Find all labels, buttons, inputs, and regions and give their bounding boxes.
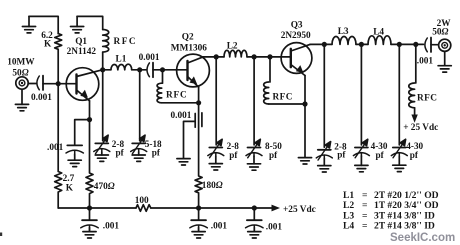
- svg-text:pf: pf: [229, 150, 238, 160]
- capacitor C2 0.001: [147, 63, 153, 77]
- ground output connector: [438, 51, 451, 72]
- wire ground G1 to 6.2K top: [29, 16, 58, 33]
- label 2W 50ohm: [432, 19, 451, 37]
- label 100: [135, 196, 149, 206]
- wire Q1 emitter down: [89, 101, 91, 120]
- svg-text:RFC: RFC: [114, 37, 138, 47]
- svg-text:100: 100: [135, 196, 149, 206]
- trimmer 4-30pf T7: [391, 44, 407, 171]
- svg-text:MM1306: MM1306: [171, 43, 207, 53]
- svg-text:.001: .001: [417, 57, 434, 67]
- svg-text:pf: pf: [269, 150, 278, 160]
- svg-text:0.001: 0.001: [139, 53, 160, 63]
- node rail T5: [322, 42, 327, 47]
- trimmer 2-8pf T1: [94, 70, 110, 162]
- wire C-in to base node: [43, 83, 76, 85]
- svg-text:.001: .001: [211, 221, 228, 231]
- wire RFC1 to collector node: [102, 52, 104, 70]
- inductor RFC1: [103, 30, 109, 53]
- transistor Q2: [177, 54, 210, 87]
- trimmer 5-18pf T2: [131, 70, 147, 162]
- inductor L2: [224, 50, 247, 57]
- label 0.001 C2: [139, 53, 160, 63]
- ground C-e1: [68, 160, 81, 166]
- wire C-out to connector: [431, 44, 439, 46]
- resistor 180: [195, 103, 202, 208]
- node rail T3: [214, 54, 219, 59]
- svg-text:pf: pf: [376, 150, 385, 160]
- node base Q1: [56, 81, 61, 86]
- node bus 470: [87, 205, 92, 210]
- label 8-50 pf T4: [265, 141, 282, 160]
- label RFC1: [114, 37, 138, 47]
- inductor RFC4: [409, 44, 416, 107]
- label 10MW 50ohm: [7, 58, 35, 79]
- svg-text:.001: .001: [47, 143, 64, 153]
- watermark SeekIC.com: [390, 232, 455, 244]
- node bus c: [252, 205, 257, 210]
- legend coil table: [343, 190, 439, 232]
- label Q3 2N2950: [281, 20, 311, 41]
- label Q1 2N1142: [67, 37, 97, 57]
- trimmer 2-8pf T3: [208, 57, 224, 170]
- ground input connector: [15, 89, 28, 111]
- svg-text:+25 Vdc: +25 Vdc: [283, 205, 316, 215]
- node Q1 emitter: [87, 117, 92, 122]
- wire Q3 emitter down: [304, 76, 306, 105]
- capacitor C-out .001: [425, 38, 431, 53]
- inductor L3: [332, 37, 356, 45]
- wire L2 to Q3 base: [247, 56, 291, 58]
- label L3: [338, 27, 349, 37]
- inductor L4: [368, 36, 391, 45]
- label 4-30 pf T7: [406, 141, 423, 160]
- wire Q2 emitter down: [198, 87, 200, 103]
- label .001 output: [417, 57, 434, 67]
- ground C-e2: [177, 159, 190, 165]
- connector J2 output: [439, 39, 451, 51]
- label 470: [94, 182, 115, 192]
- label +25 Vdc right: [403, 123, 438, 133]
- node L1 right: [137, 67, 142, 72]
- label 4-30 pf T6: [371, 141, 388, 160]
- node rail RFC3: [267, 54, 272, 59]
- capacitor bus .001 c: [246, 208, 263, 238]
- node rail T7: [397, 42, 402, 47]
- svg-text:Q2: Q2: [182, 32, 194, 42]
- label L4: [373, 27, 384, 37]
- node Q1 collector: [100, 67, 105, 72]
- svg-text:50Ω: 50Ω: [432, 27, 448, 37]
- wire L1 to node: [132, 69, 140, 71]
- label .001 a: [103, 221, 120, 231]
- wire Q2 collector rail: [203, 56, 224, 58]
- trimmer 4-30pf T6: [353, 44, 369, 171]
- label L2: [227, 41, 238, 51]
- svg-text:RFC: RFC: [166, 90, 188, 100]
- trimmer 2-8pf T5: [316, 44, 332, 172]
- svg-text:L1: L1: [116, 55, 127, 65]
- trimmer 8-50pf T4: [246, 57, 262, 170]
- label 2.7 K: [63, 174, 75, 193]
- label 2-8 pf T1: [112, 139, 125, 157]
- svg-text:470Ω: 470Ω: [94, 182, 115, 192]
- inductor L1: [111, 64, 132, 70]
- wire node to C2: [140, 69, 146, 71]
- svg-text:2T #14 3/8'' ID: 2T #14 3/8'' ID: [374, 221, 435, 232]
- arrow +25Vdc right: [411, 108, 417, 123]
- label RFC4: [417, 94, 437, 104]
- label RFC2: [166, 90, 188, 100]
- svg-text:180Ω: 180Ω: [202, 181, 223, 191]
- svg-text:0.001: 0.001: [31, 93, 52, 103]
- wire L1 rail: [103, 69, 111, 71]
- label 5-18 pf T2: [145, 139, 162, 157]
- svg-text:pf: pf: [116, 147, 125, 157]
- label 0.001 input: [31, 93, 52, 103]
- node bus 180: [196, 205, 201, 210]
- svg-text:L2: L2: [227, 41, 238, 51]
- capacitor C-in 0.001: [37, 76, 43, 90]
- inductor RFC2: [157, 70, 199, 103]
- resistor 6.2K: [55, 34, 62, 50]
- svg-text:10MW: 10MW: [7, 58, 35, 68]
- bus +25Vdc bottom: [58, 207, 136, 209]
- node Q3 emitter: [302, 101, 307, 106]
- svg-text:2N2950: 2N2950: [281, 31, 311, 41]
- label RFC3: [273, 93, 293, 103]
- svg-text:SeekIC.com: SeekIC.com: [390, 232, 455, 244]
- svg-text:.001: .001: [266, 223, 283, 233]
- svg-text:.001: .001: [103, 221, 120, 231]
- label 2-8 pf T5: [334, 141, 347, 159]
- svg-text:pf: pf: [337, 150, 346, 160]
- svg-text:0.001: 0.001: [171, 111, 192, 121]
- ground G1 top-left: [22, 16, 35, 33]
- wire 6.2K to base node: [57, 49, 59, 83]
- transistor Q1: [66, 68, 102, 101]
- label 2-8 pf T3: [227, 141, 240, 160]
- transistor Q3: [281, 43, 312, 76]
- bus continue: [151, 207, 272, 209]
- svg-text:Q1: Q1: [75, 37, 87, 47]
- node rail RFC4: [413, 42, 418, 47]
- node rail T4: [252, 54, 257, 59]
- wire L3 to L4: [356, 43, 368, 45]
- resistor 100: [136, 205, 151, 212]
- svg-text:pf: pf: [410, 150, 419, 160]
- label 0.001 C-e2: [171, 111, 192, 121]
- node rail T6: [359, 42, 364, 47]
- resistor 470: [86, 120, 93, 208]
- svg-text:+ 25 Vdc: + 25 Vdc: [403, 123, 438, 133]
- label +25 Vdc bus: [283, 205, 316, 215]
- wire ground G2 to RFC1 top: [77, 16, 103, 29]
- wire C-e2 to ground: [184, 121, 196, 158]
- ground G2 top-left: [71, 16, 84, 33]
- capacitor bus .001 b: [190, 208, 207, 238]
- svg-text:RFC: RFC: [273, 93, 293, 103]
- wire C2 to Q2 base node: [153, 69, 163, 71]
- wire L4 to output: [391, 43, 424, 45]
- capacitor bus .001 a: [81, 208, 98, 238]
- svg-text:K: K: [44, 40, 52, 50]
- svg-text:=: =: [362, 221, 367, 232]
- label .001 c: [266, 223, 283, 233]
- svg-text:L4: L4: [373, 27, 384, 37]
- svg-text:Q3: Q3: [291, 20, 303, 30]
- wire emitter node to bypass cap: [75, 120, 90, 145]
- svg-text:L4: L4: [343, 221, 354, 232]
- label .001 b: [211, 221, 228, 231]
- capacitor C-e2 0.001: [195, 113, 202, 127]
- wire base node to Q2: [163, 69, 188, 71]
- label 6.2 K: [41, 31, 53, 50]
- node Q2 base: [160, 67, 165, 72]
- label Q2 MM1306: [171, 32, 207, 53]
- capacitor C-e1 .001: [66, 145, 83, 160]
- wire connector to C-in: [28, 83, 36, 85]
- wire Q3 emitter to ground: [304, 104, 306, 158]
- svg-text:2N1142: 2N1142: [67, 47, 97, 57]
- ground Q3 emitter: [298, 158, 311, 164]
- edge speck: [0, 233, 2, 237]
- svg-text:K: K: [66, 183, 74, 193]
- svg-text:pf: pf: [152, 147, 161, 157]
- arrow bus +25: [272, 205, 281, 212]
- label .001 C-e1: [47, 143, 64, 153]
- wire Q3 collector rail: [310, 43, 332, 45]
- inductor RFC3: [264, 57, 305, 104]
- resistor 2.7K: [55, 84, 62, 208]
- node Q2 emitter: [196, 100, 201, 105]
- connector J1 input: [16, 77, 28, 89]
- svg-text:RFC: RFC: [417, 94, 437, 104]
- svg-text:L3: L3: [338, 27, 349, 37]
- label 180: [202, 181, 223, 191]
- label L1: [116, 55, 127, 65]
